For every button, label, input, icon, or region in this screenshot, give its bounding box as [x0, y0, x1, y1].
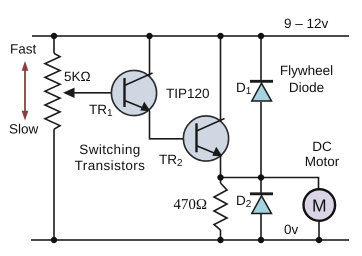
resistor R1 470 ohm: [214, 178, 227, 241]
svg-text:5KΩ: 5KΩ: [64, 69, 91, 84]
diode D1 flywheel: [250, 36, 273, 178]
wire TR1 emitter to TR2 base: [150, 111, 197, 139]
svg-text:DC: DC: [312, 139, 332, 154]
node bottom rail pot: [51, 237, 57, 243]
transistor TR1: [111, 70, 156, 115]
wire mid node to motor: [221, 178, 319, 190]
svg-text:Motor: Motor: [305, 154, 340, 169]
node mid D1 D2: [258, 174, 264, 180]
wire TR2 collector to rail: [220, 36, 222, 121]
svg-text:Diode: Diode: [289, 80, 324, 95]
svg-text:M: M: [312, 195, 327, 215]
node top rail TR2 collector: [217, 33, 223, 39]
svg-text:Switching: Switching: [79, 142, 140, 157]
svg-text:Slow: Slow: [9, 122, 39, 137]
wire TR1 collector to rail: [149, 36, 151, 78]
wire TR2 emitter down to mid node: [220, 156, 222, 178]
svg-text:470Ω: 470Ω: [173, 197, 207, 213]
svg-text:TR2: TR2: [159, 152, 183, 169]
diode D2: [250, 178, 273, 241]
svg-text:Transistors: Transistors: [75, 158, 146, 173]
svg-text:Fast: Fast: [10, 42, 37, 57]
node bottom rail R1: [217, 237, 223, 243]
node bottom rail D2: [258, 237, 264, 243]
svg-text:TR1: TR1: [89, 102, 113, 119]
pot wiper arrow to TR1 base: [63, 88, 125, 98]
wire pot bottom: [53, 129, 55, 240]
arrow fast-slow: [22, 61, 29, 121]
motor M1: [304, 189, 336, 240]
svg-text:D2: D2: [236, 193, 252, 210]
node top rail pot: [51, 33, 57, 39]
node bottom rail motor: [316, 237, 322, 243]
svg-text:D1: D1: [236, 80, 252, 97]
svg-text:9 – 12v: 9 – 12v: [284, 16, 329, 31]
potentiometer VR1 5K: [45, 36, 60, 240]
wire pot top: [53, 36, 55, 53]
svg-text:TIP120: TIP120: [166, 86, 210, 101]
wire top rail 9-12v: [32, 35, 349, 37]
svg-text:0v: 0v: [284, 222, 299, 237]
transistor TR2: [183, 116, 228, 161]
svg-text:Flywheel: Flywheel: [280, 63, 333, 78]
node top rail D1: [258, 33, 264, 39]
wire bottom rail 0v: [31, 239, 349, 241]
node top rail TR1 collector: [146, 33, 152, 39]
resistor body 5K zigzag: [45, 53, 60, 129]
node mid TR2 emitter: [217, 174, 223, 180]
